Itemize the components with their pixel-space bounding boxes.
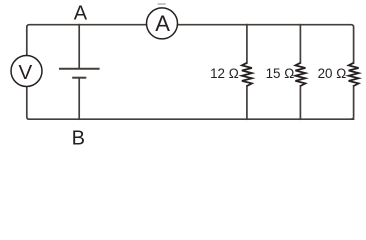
svg-text:B: B	[72, 127, 85, 148]
ammeter A circle	[147, 8, 178, 39]
wire battery branch lower	[78, 78, 80, 119]
voltmeter V circle	[11, 56, 42, 87]
resistor R1 zigzag (12 ohm)	[242, 63, 252, 86]
battery cell (short plate)	[72, 77, 86, 79]
svg-text:V: V	[18, 61, 32, 84]
resistor R3 zigzag (20 ohm)	[349, 63, 359, 86]
wire right side below 20-ohm resistor	[351, 86, 354, 119]
wire top-left segment (corner A-branch to ammeter)	[27, 25, 146, 55]
wire 15-ohm branch upper	[299, 25, 301, 63]
wire top-right segment (ammeter to top-right corner, down right side)	[178, 25, 353, 63]
battery cell (long plate)	[59, 68, 100, 70]
svg-text:A: A	[155, 11, 170, 36]
wire bottom rail	[27, 87, 354, 119]
resistor R2 zigzag (15 ohm)	[295, 63, 305, 86]
svg-text:15 Ω: 15 Ω	[266, 66, 295, 81]
svg-text:20 Ω: 20 Ω	[318, 66, 347, 81]
svg-text:12 Ω: 12 Ω	[210, 66, 239, 81]
wire battery branch upper	[78, 25, 80, 68]
wire 12-ohm branch lower	[246, 86, 248, 119]
wire 15-ohm branch lower	[299, 86, 301, 119]
wire 12-ohm branch upper	[246, 25, 248, 63]
faint cropped artifact mark above ammeter	[158, 3, 166, 5]
svg-text:A: A	[74, 2, 88, 24]
